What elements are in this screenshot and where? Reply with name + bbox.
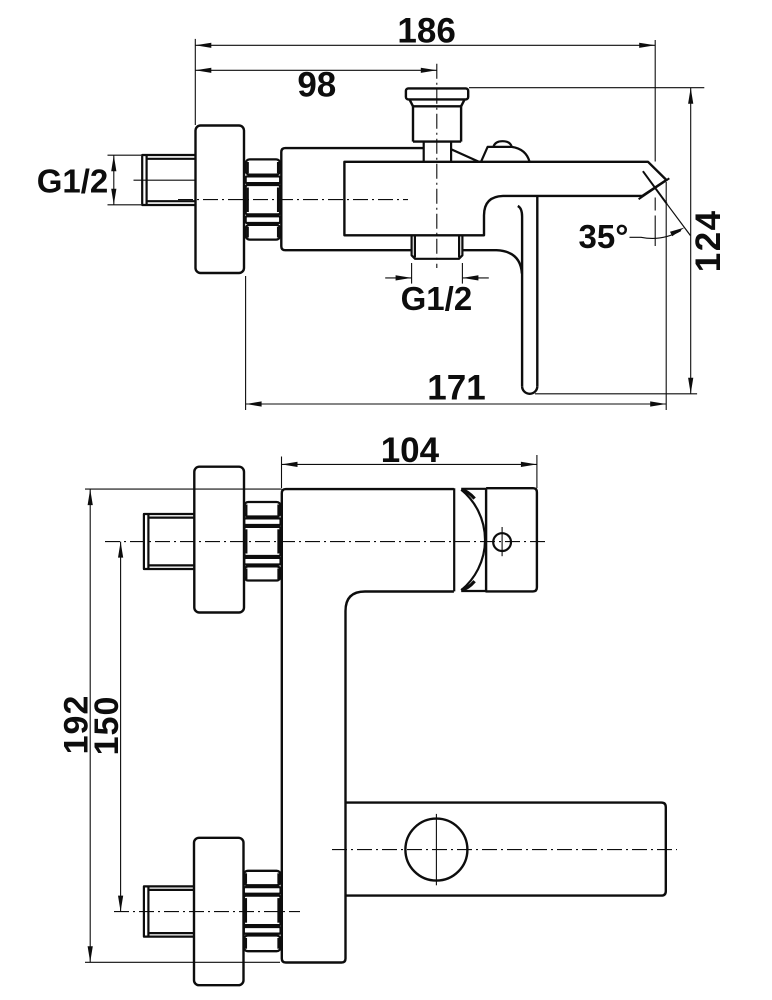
35 degree arrowhead: [670, 228, 685, 237]
indicator dome and button on lever: [481, 141, 530, 162]
dimension 124 extension lines: [469, 88, 704, 394]
cartridge dome (front view): [454, 488, 486, 591]
svg-text:104: 104: [381, 431, 440, 470]
spout hole vertical crosshair: [435, 814, 437, 885]
hex nut on union (side view): [246, 159, 281, 239]
dimension G1/2 (nipple) extension lines: [385, 263, 489, 284]
spout bar centerline: [332, 849, 677, 851]
dimension 192 line: [89, 489, 91, 962]
dimension 171 line: [246, 403, 667, 405]
dimension 171 arrowheads: [246, 401, 667, 406]
svg-text:186: 186: [397, 12, 455, 51]
svg-text:G1/2: G1/2: [401, 280, 473, 317]
bottom wall flange plate (front view): [194, 838, 244, 985]
35 degree reference: angled face extension line: [667, 204, 691, 236]
horizontal centerline of body: [178, 199, 408, 201]
svg-text:35°: 35°: [579, 218, 629, 255]
dimension 150 arrowheads: [118, 542, 123, 912]
dimension 104 line: [282, 463, 537, 465]
top hex nut (front view): [244, 502, 280, 581]
bottom hex nut (front view): [244, 871, 281, 951]
diverter knob on top: [406, 88, 468, 141]
spout hole circle: [405, 819, 467, 881]
wall flange plate (side view): [196, 126, 245, 274]
svg-text:G1/2: G1/2: [37, 163, 109, 200]
dimension 98 line: [195, 69, 436, 71]
dimension 150 line: [120, 542, 122, 912]
vertical centerline of knob and nipple: [436, 64, 438, 268]
top wall flange plate (front view): [194, 467, 244, 613]
handle set-screw hole: [493, 533, 511, 551]
dimension 186 arrowheads: [195, 43, 655, 48]
dimension 98 arrowheads: [195, 68, 436, 73]
spout blade leg (side view): [518, 196, 538, 393]
svg-text:98: 98: [297, 66, 336, 105]
bottom spout bar (front view): [346, 803, 666, 896]
dimension 192 arrowheads: [88, 489, 93, 962]
dimension 192 extension lines: [85, 489, 282, 962]
inlet union pipe G1/2 (left): [142, 155, 195, 205]
dimension G1/2 (left union) arrowheads: [111, 155, 116, 205]
diverter knob stem: [424, 142, 451, 162]
dimension 186 line: [195, 44, 655, 46]
bottom inlet union pipe: [144, 886, 194, 936]
dimension 171 extension lines: [246, 182, 667, 410]
dimension 104 arrowheads: [282, 462, 537, 467]
dimension 186 extension lines: [195, 39, 655, 246]
dimension G1/2 (left union) extension lines: [108, 155, 142, 205]
35 degree arc leader: [630, 231, 682, 239]
dimension G1/2 (nipple) arrowheads: [396, 275, 479, 280]
set-screw hole vertical crosshair: [501, 527, 503, 556]
outlet nipple G1/2 (bottom): [412, 235, 463, 258]
lever handle bar (side view): [344, 162, 666, 236]
handle head block (front view): [486, 488, 537, 591]
bottom union centerline: [114, 911, 300, 913]
dimension 124 line: [690, 88, 692, 394]
faucet body bar (front view): [282, 489, 454, 962]
dimension 124 arrowheads: [688, 88, 693, 394]
dimension 104 extension lines: [282, 455, 537, 488]
valve body top-right chamfer line: [451, 149, 479, 162]
svg-text:124: 124: [689, 209, 728, 272]
svg-text:150: 150: [88, 696, 126, 756]
valve body (side view): [281, 148, 522, 273]
leader line from G1/2 text to union: [134, 179, 197, 181]
svg-text:171: 171: [427, 369, 485, 408]
top union centerline: [105, 541, 547, 543]
top inlet union pipe: [144, 514, 194, 569]
aerator X mark on lever tip: [639, 171, 670, 204]
